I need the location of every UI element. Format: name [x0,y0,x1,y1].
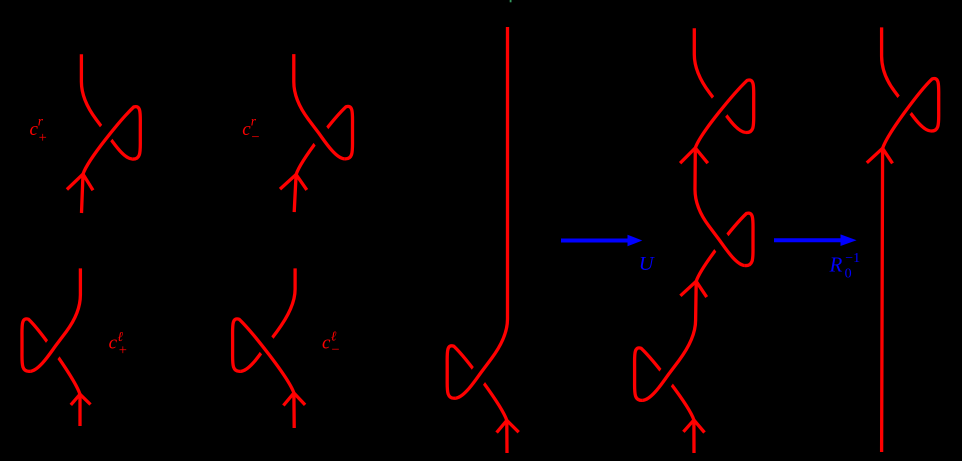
arrowhead fig7 [867,148,893,163]
blue map arrow U [561,239,629,243]
arrowhead fig6 bottom [683,420,704,433]
svg-text:−: − [331,342,339,358]
crossing gap of c^l_- [257,334,277,356]
strand: fig6 bottom curl return rising to middle arrow (over) [643,281,696,400]
svg-text:r: r [251,114,257,129]
strand: curl c^r_- ascending (under at crossing) [294,106,352,212]
blue map arrow R0^-1 [774,238,842,242]
crossing gap fig6 bottom curl [660,362,678,386]
svg-text:c: c [109,333,118,354]
svg-text:R: R [829,252,843,276]
green tick at top edge [510,0,512,2]
svg-text:0: 0 [845,267,852,282]
strand: curl c^l_+ ascending (under at crossing) [22,319,80,426]
svg-text:U: U [639,253,655,275]
crossing gap of c^r_- [310,121,328,145]
arrowhead on c^l_+ strand [71,394,91,405]
svg-text:+: + [39,130,47,146]
strand: middle long strand curl return up to top (over) [455,27,507,398]
strand: fig6 middle curl ascending (under) [696,213,753,281]
strand: fig6 middle curl return rising to top arrow (over) [695,148,745,266]
strand: curl c^l_- return (under at crossing) [241,268,295,371]
arrowhead fig6 top [680,148,708,163]
strand: curl c^r_+ ascending (over at crossing) [82,107,141,213]
svg-text:−: − [251,130,259,146]
strand: curl c^r_- return (over at crossing) [294,54,345,159]
crossing gap fig7 curl [895,94,915,116]
strand: curl c^l_- ascending (over at crossing) [233,319,295,428]
crossing gap of c^r_+ [96,122,116,144]
arrowhead on c^r_- strand [280,175,307,190]
crossing gap of c^l_+ [47,333,65,357]
strand: fig6 bottom curl ascending (under) [635,348,694,453]
crossing gap fig6 middle curl [710,228,728,252]
arrowhead on c^r_+ strand [67,174,93,190]
crossing gap of middle curl [472,360,490,384]
svg-text:r: r [38,114,44,129]
strand: curl c^r_+ return (under at crossing) [81,54,132,159]
strand: fig6 top curl return to top end (under) [694,28,745,132]
strand: fig6 top curl ascending (over) [695,80,753,148]
strand: fig7 curl return to top end (under) [882,27,931,130]
svg-text:−1: −1 [845,251,860,266]
arrowhead fig6 middle [680,281,706,297]
crossing gap fig6 top curl [710,95,730,117]
strand: fig7 long strand ascending (over) [882,78,939,452]
strand: middle long strand ascending into curl (under) [447,346,507,453]
svg-text:+: + [119,343,127,359]
svg-text:c: c [322,333,331,354]
arrowhead on middle strand [497,420,519,432]
strand: curl c^l_+ return (over at crossing) [30,268,80,371]
arrowhead on c^l_- strand [283,393,305,406]
